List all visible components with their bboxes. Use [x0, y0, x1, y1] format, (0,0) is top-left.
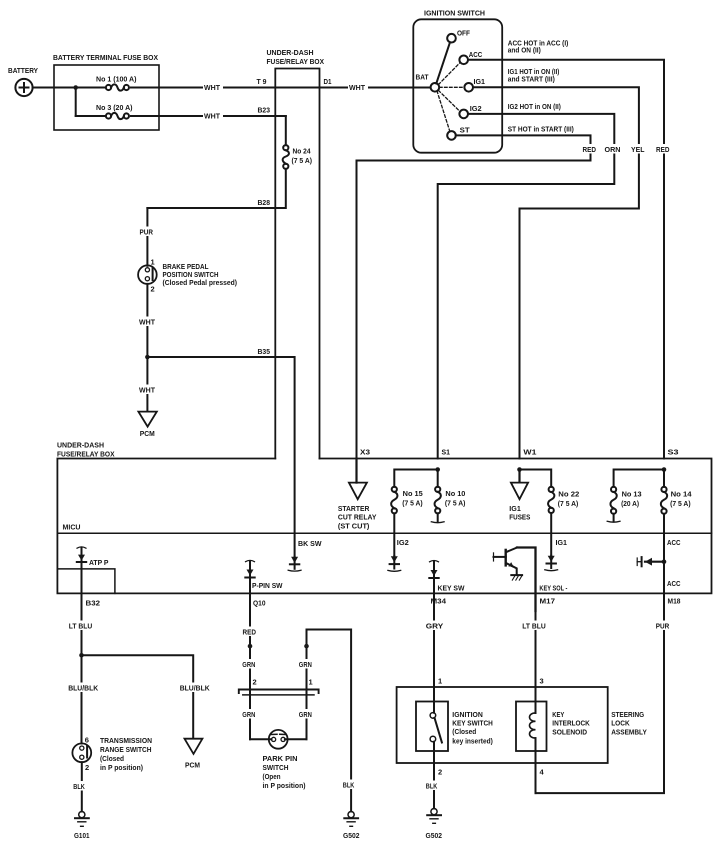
wire brake switch to junction [146, 284, 148, 357]
svg-text:RED: RED [243, 627, 257, 636]
svg-text:BK SW: BK SW [298, 539, 322, 548]
svg-text:BLU/BLK: BLU/BLK [68, 683, 99, 692]
wire label WHT [139, 385, 158, 395]
svg-text:GRN: GRN [299, 710, 312, 719]
wire transistor collector to M17 [517, 548, 536, 612]
ground G101 [74, 812, 90, 841]
node splice GRN right [304, 644, 309, 649]
wire to G502 (park) [307, 630, 352, 812]
park pin switch [250, 730, 307, 749]
svg-text:LOCK: LOCK [611, 719, 630, 728]
svg-text:G101: G101 [74, 831, 90, 840]
starter cut relay triangle [349, 483, 367, 500]
svg-text:No 1 (100 A): No 1 (100 A) [96, 75, 137, 84]
svg-text:UNDER-DASH: UNDER-DASH [57, 441, 104, 450]
svg-text:BATTERY TERMINAL FUSE BOX: BATTERY TERMINAL FUSE BOX [53, 53, 158, 62]
dashed contact BAT-IG2 [439, 91, 461, 112]
svg-text:(Closed: (Closed [100, 754, 124, 763]
wire No 14 down (ACC) [663, 514, 665, 594]
svg-text:PARK PIN: PARK PIN [263, 754, 298, 763]
wire KEY SW to M34 [433, 578, 435, 611]
svg-text:PCM: PCM [185, 760, 200, 769]
svg-text:B28: B28 [258, 198, 271, 207]
wire battery to BAT (main WHT feed) [33, 87, 431, 89]
contact IG2 [459, 110, 468, 119]
dashed contact BAT-ST [437, 91, 450, 131]
diode to ACC (left pointing) [637, 557, 664, 566]
svg-text:ASSEMBLY: ASSEMBLY [611, 728, 647, 737]
svg-text:WHT: WHT [204, 112, 220, 121]
wire junction to PCM branch [82, 655, 194, 739]
PCM connector triangle (2nd) [185, 739, 203, 754]
svg-text:BAT: BAT [416, 73, 429, 82]
wire label GRN (left upper) [242, 659, 260, 669]
fuse No 14 (7.5 A) [661, 470, 692, 514]
svg-text:ST: ST [460, 125, 470, 134]
svg-text:G502: G502 [343, 831, 360, 840]
switch blade BAT-OFF [436, 42, 450, 83]
wire IG1 hot [473, 87, 639, 458]
wire label YEL (IG1) [631, 144, 648, 154]
fuse No 22 (7.5 A) [548, 487, 579, 513]
ignition switch box U-IGN [413, 19, 502, 152]
svg-text:No 24: No 24 [293, 147, 311, 156]
svg-text:ACC: ACC [667, 538, 681, 547]
wire label RED (ACC) [656, 144, 673, 154]
key interlock solenoid inner box [516, 702, 547, 752]
No 10 dead-end stub [431, 513, 444, 522]
svg-text:PUR: PUR [656, 621, 670, 630]
svg-text:M17: M17 [540, 597, 556, 606]
wire label WHT (D1-BAT) [348, 83, 368, 92]
wire label LT BLU [68, 621, 95, 631]
svg-text:and ON (II): and ON (II) [508, 45, 541, 54]
key switch contacts [430, 713, 442, 763]
battery B+ [15, 79, 32, 96]
under-dash fuse/relay box (upper) [275, 69, 319, 459]
svg-text:PCM: PCM [140, 429, 155, 438]
IG1 input (arrow to bar) [545, 538, 567, 571]
wire B23 corner down [285, 116, 287, 145]
fuse No 24 (7.5 A) [283, 145, 313, 169]
svg-text:1: 1 [309, 678, 313, 687]
wire label GRY [425, 621, 444, 631]
wire to transmission range switch [81, 655, 83, 743]
svg-text:M34: M34 [431, 597, 447, 606]
wire label BLK [342, 780, 360, 790]
wire pin 4 down [535, 763, 537, 793]
node: junction at battery feed [73, 85, 78, 90]
node diode junction [662, 559, 667, 564]
svg-text:P-PIN SW: P-PIN SW [252, 581, 283, 590]
wire S1 to fuses [394, 470, 437, 487]
svg-text:UNDER-DASH: UNDER-DASH [267, 48, 314, 57]
wire fuse24 to B28 row [147, 169, 285, 208]
fuse No 13 (20 A) [610, 487, 641, 514]
svg-text:in P position): in P position) [263, 781, 306, 790]
steering lock assembly box [397, 687, 608, 763]
node junction LT BLU [79, 653, 84, 658]
ground G502 (key switch) [426, 809, 443, 841]
svg-text:OFF: OFF [457, 29, 470, 38]
wire Q10 down [249, 611, 251, 739]
wire label WHT (row2) [203, 112, 223, 121]
wire P-PIN SW to Q10 [249, 578, 251, 612]
transmission range switch [72, 736, 91, 773]
svg-text:No 13: No 13 [622, 490, 642, 499]
wire label BLK [425, 781, 443, 791]
wire B35 to BK SW [147, 357, 294, 557]
svg-text:FUSE/RELAY BOX: FUSE/RELAY BOX [267, 57, 325, 66]
wire label GRN (right lower) [298, 709, 316, 719]
wire label ORN (IG2) [604, 144, 623, 154]
P-PIN SW input (tick arrow bar) [245, 560, 283, 590]
wire label BLU/BLK (left) [68, 683, 99, 693]
wire M34 to key switch [433, 611, 435, 713]
svg-text:B35: B35 [258, 347, 271, 356]
svg-text:TRANSMISSION: TRANSMISSION [100, 736, 152, 745]
svg-text:YEL: YEL [631, 145, 645, 154]
ATP P sub-box partition [57, 569, 115, 594]
contact BAT [431, 83, 440, 92]
battery terminal fuse box [54, 65, 159, 130]
svg-text:FUSES: FUSES [509, 513, 530, 522]
svg-text:B23: B23 [258, 106, 271, 115]
svg-text:(Closed: (Closed [452, 727, 476, 736]
svg-text:GRN: GRN [242, 710, 255, 719]
svg-text:IG1: IG1 [474, 77, 486, 86]
KEY SW input (tick arrow bar) [429, 561, 465, 593]
svg-text:key inserted): key inserted) [452, 736, 493, 745]
svg-text:ACC: ACC [667, 579, 681, 588]
svg-text:RED: RED [583, 145, 597, 154]
svg-text:IG2: IG2 [470, 104, 482, 113]
ground G502 (park) [343, 812, 360, 841]
svg-text:SOLENOID: SOLENOID [552, 728, 587, 737]
svg-text:IG1: IG1 [556, 538, 568, 547]
node junction B35 [145, 355, 150, 360]
svg-text:M18: M18 [668, 597, 681, 606]
svg-text:S3: S3 [668, 448, 679, 457]
svg-text:No 14: No 14 [671, 490, 692, 499]
svg-text:1: 1 [438, 677, 442, 686]
svg-text:G502: G502 [426, 831, 443, 840]
wire park switch right branch [306, 630, 308, 740]
svg-text:No 22: No 22 [558, 490, 579, 499]
wire ACC hot [468, 60, 664, 459]
contact ST [447, 131, 456, 140]
svg-text:T 9: T 9 [257, 77, 267, 86]
svg-text:(ST CUT): (ST CUT) [338, 521, 370, 530]
svg-text:RANGE SWITCH: RANGE SWITCH [100, 745, 152, 754]
wire B32 down [81, 611, 83, 655]
dashed contact BAT-ACC [439, 63, 461, 85]
wire label RED [242, 627, 259, 637]
in-line connector bars [239, 690, 319, 695]
MICU section line [57, 532, 711, 534]
svg-text:BLK: BLK [73, 782, 85, 791]
svg-text:WHT: WHT [139, 317, 155, 326]
svg-text:MICU: MICU [63, 523, 81, 532]
svg-text:2: 2 [85, 763, 89, 772]
fuse No 3 (20 A) [96, 103, 133, 121]
under-dash fuse/relay box (lower, main) [57, 459, 711, 594]
svg-text:B32: B32 [86, 599, 101, 608]
svg-text:and START (III): and START (III) [508, 75, 555, 84]
svg-text:(Open: (Open [263, 772, 281, 781]
brake pedal position switch [138, 257, 157, 293]
svg-text:BLU/BLK: BLU/BLK [180, 683, 211, 692]
node S1 junction [435, 467, 440, 472]
wire label WHT (row1) [203, 83, 223, 92]
wire label GRN (left lower) [242, 709, 260, 719]
svg-text:ACC: ACC [469, 50, 483, 59]
PCM connector triangle [138, 412, 156, 427]
contact OFF [447, 34, 456, 43]
svg-text:(7 5 A): (7 5 A) [670, 499, 691, 508]
fuse No 1 (100 A) [96, 75, 137, 93]
wire junction to PCM [146, 357, 148, 412]
svg-text:CUT RELAY: CUT RELAY [338, 513, 377, 522]
contact ACC [459, 56, 468, 65]
svg-text:ORN: ORN [605, 145, 621, 154]
svg-text:INTERLOCK: INTERLOCK [552, 719, 590, 728]
svg-text:(7 5 A): (7 5 A) [558, 499, 579, 508]
svg-text:KEY SW: KEY SW [438, 584, 466, 593]
svg-text:KEY: KEY [552, 710, 564, 719]
svg-text:(7 5 A): (7 5 A) [402, 499, 423, 508]
IG1 fuses triangle [509, 470, 530, 522]
svg-text:(20 A): (20 A) [621, 499, 640, 508]
svg-text:PUR: PUR [140, 227, 154, 236]
node W1 junction [517, 467, 522, 472]
svg-text:STARTER: STARTER [338, 504, 370, 513]
svg-text:(7 5 A): (7 5 A) [445, 499, 466, 508]
IG2 input (arrow to bar) [388, 538, 409, 571]
svg-text:IG2: IG2 [397, 538, 409, 547]
svg-text:W1: W1 [523, 448, 536, 457]
svg-text:FUSE/RELAY BOX: FUSE/RELAY BOX [57, 449, 115, 458]
svg-text:WHT: WHT [349, 83, 365, 92]
wire No 22 to IG1 input [550, 513, 552, 556]
wire key switch to G502 [433, 763, 435, 809]
svg-text:KEY SOL -: KEY SOL - [539, 584, 567, 593]
wire ST hot [357, 135, 591, 458]
svg-text:2: 2 [253, 678, 257, 687]
wire label RED (ST) [582, 144, 599, 154]
ATP P input (tick arrow bar) [77, 547, 109, 567]
svg-text:GRY: GRY [426, 621, 444, 630]
wire label PUR [139, 227, 156, 237]
svg-text:No 3 (20 A): No 3 (20 A) [96, 103, 133, 112]
wire M18 / PUR to pin 4 [536, 593, 665, 793]
wire switch to G101 [81, 762, 83, 811]
svg-text:WHT: WHT [204, 83, 220, 92]
solenoid coil [530, 713, 536, 763]
svg-text:D1: D1 [324, 77, 332, 86]
transistor Q (key interlock driver) [494, 548, 523, 581]
svg-text:LT BLU: LT BLU [69, 621, 93, 630]
wire No 15 to IG2 input [393, 513, 395, 556]
wire junction down [75, 88, 77, 117]
svg-text:2: 2 [151, 285, 155, 294]
svg-text:X3: X3 [360, 448, 370, 457]
wire IG2 hot [438, 114, 615, 459]
svg-text:STEERING: STEERING [611, 710, 644, 719]
wire label GRN (right upper) [298, 659, 316, 669]
svg-text:IG2 HOT in ON (II): IG2 HOT in ON (II) [508, 102, 561, 111]
svg-text:ST HOT in START (III): ST HOT in START (III) [508, 125, 574, 134]
svg-text:KEY SWITCH: KEY SWITCH [452, 718, 493, 727]
node S3 junction [662, 467, 667, 472]
wire M17 to solenoid [535, 611, 537, 713]
svg-text:WHT: WHT [139, 385, 155, 394]
svg-text:(7 5 A): (7 5 A) [292, 156, 313, 165]
fuse No 10 (7.5 A) [435, 487, 466, 514]
fuse No 15 (7.5 A) [391, 487, 423, 514]
wire label WHT [139, 317, 158, 327]
svg-text:BLK: BLK [343, 780, 355, 789]
wire PUR down to brake switch [146, 208, 148, 266]
svg-text:(Closed Pedal pressed): (Closed Pedal pressed) [163, 278, 238, 287]
node splice RED/GRN [248, 644, 253, 649]
svg-text:ATP P: ATP P [89, 558, 109, 567]
svg-text:LT BLU: LT BLU [522, 621, 546, 630]
ignition key switch inner box [416, 702, 448, 752]
wire W1 to fuse No 22 [520, 470, 552, 487]
svg-text:No 15: No 15 [403, 489, 423, 498]
svg-text:in P position): in P position) [100, 763, 143, 772]
wire label BLK [73, 781, 91, 791]
svg-text:IGNITION SWITCH: IGNITION SWITCH [424, 9, 485, 18]
svg-text:BATTERY: BATTERY [8, 66, 38, 75]
wire S3 to fuse No 13 [614, 470, 664, 487]
BK SW input (arrow to bar) [288, 539, 322, 571]
svg-text:RED: RED [656, 145, 670, 154]
contact IG1 [464, 83, 473, 92]
svg-text:S1: S1 [442, 448, 451, 457]
svg-text:2: 2 [438, 768, 442, 777]
wire label PUR [655, 621, 673, 631]
svg-text:BLK: BLK [426, 781, 438, 790]
svg-text:GRN: GRN [299, 660, 312, 669]
wire label BLU/BLK (right) [179, 683, 210, 693]
dashed contact BAT-IG1 [440, 86, 465, 88]
wire No 3 row [76, 115, 286, 117]
svg-text:3: 3 [540, 677, 544, 686]
svg-text:Q10: Q10 [253, 599, 266, 608]
svg-text:SWITCH: SWITCH [263, 763, 289, 772]
svg-text:6: 6 [85, 736, 89, 745]
svg-text:GRN: GRN [242, 660, 255, 669]
svg-text:1: 1 [151, 257, 155, 266]
No 13 dead-end stub [607, 514, 620, 522]
wire label LT BLU [522, 621, 550, 631]
wire ATP P to B32 [81, 562, 83, 611]
svg-text:No 10: No 10 [445, 489, 465, 498]
svg-text:IG1: IG1 [509, 504, 521, 513]
